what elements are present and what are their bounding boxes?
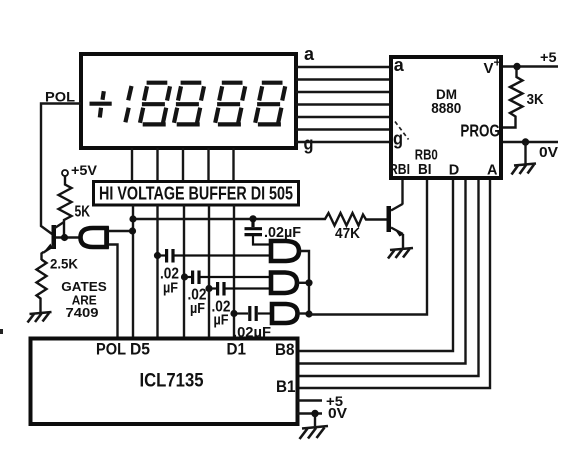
junction G0/D5	[129, 227, 136, 234]
resistor R2 2.5K	[37, 260, 47, 313]
svg-text:POL: POL	[96, 341, 126, 359]
display digit 8 (#3)	[215, 83, 245, 125]
wires display to buffer (5 segment lines)	[132, 148, 234, 182]
wire V+ to +5	[503, 65, 558, 67]
ground (ICL7135 0V)	[300, 426, 329, 439]
segment bundle slash mark	[395, 122, 409, 140]
transistor Q1 (PNP polarity driver)	[42, 222, 82, 260]
junction C2/D4 column	[154, 252, 161, 259]
svg-text:+5: +5	[540, 49, 557, 65]
svg-text:PROG: PROG	[460, 121, 500, 141]
wire main bus y=219 (D5 to 47K)	[133, 218, 322, 220]
capacitor C1 .02uF (vertical)	[245, 219, 272, 245]
wire 0V (DM8880)	[503, 141, 558, 143]
junction C3/D3 column	[181, 273, 188, 280]
ICL7135 U1 box	[31, 339, 298, 425]
wire bus to BI pin	[309, 180, 427, 315]
wires DM8880 D,A pins to ICL7135 B outputs	[297, 180, 490, 388]
junction Q1 collector / gate input	[61, 234, 68, 241]
capacitor C3 .02uF (horizontal)	[185, 271, 272, 285]
ground (under R2)	[28, 312, 52, 323]
display digit 8 (#1)	[140, 83, 170, 125]
wire to ground	[524, 142, 526, 164]
gate G2 (7409)	[271, 273, 297, 294]
junction D5/main bus	[129, 215, 136, 222]
wire 0V stub (ICL7135)	[297, 412, 322, 414]
ground (DM8880 0V)	[512, 164, 537, 175]
svg-text:B1: B1	[276, 378, 296, 396]
svg-text:5K: 5K	[75, 204, 91, 221]
resistor R1 5K	[59, 176, 72, 238]
terminal +5V circle	[62, 170, 68, 176]
svg-text:A: A	[487, 163, 498, 179]
svg-text:a: a	[304, 44, 315, 64]
junction V+/3K	[513, 63, 520, 70]
DM8880 U2 box	[391, 57, 501, 178]
display digit 8 (#4)	[255, 83, 285, 125]
svg-text:D: D	[449, 163, 459, 179]
junction 0V/ground	[522, 138, 529, 145]
display digit 8 (#2)	[174, 83, 204, 125]
svg-text:µF: µF	[214, 312, 229, 329]
junction main bus / C1	[249, 215, 256, 222]
svg-text:2.5K: 2.5K	[50, 256, 78, 272]
wire to ground (ICL7135)	[314, 414, 316, 427]
svg-text:8880: 8880	[431, 101, 461, 117]
gate G3 (7409)	[272, 304, 298, 323]
display digit 1	[125, 86, 131, 122]
gate G0 (7409, faces left)	[81, 228, 107, 247]
svg-text:ICL7135: ICL7135	[140, 371, 204, 392]
svg-text:.02µF: .02µF	[264, 224, 301, 241]
svg-text:D1: D1	[227, 341, 247, 359]
svg-text:BI: BI	[418, 162, 432, 178]
buffer U3 box	[94, 182, 299, 206]
svg-text:V: V	[484, 60, 494, 77]
svg-text:µF: µF	[163, 280, 178, 297]
transistor Q2 (NPN, RBI driver)	[387, 204, 404, 248]
capacitor C5 .02uF (horizontal)	[234, 306, 272, 321]
svg-text:+: +	[494, 56, 501, 70]
svg-text:DM: DM	[436, 87, 457, 102]
svg-text:a: a	[394, 55, 405, 75]
svg-text:D5: D5	[130, 341, 150, 359]
resistor R4 3K	[503, 67, 523, 128]
resistor R3 47K	[322, 213, 387, 226]
svg-text:RBI: RBI	[389, 162, 410, 178]
svg-text:HI VOLTAGE BUFFER DI 505: HI VOLTAGE BUFFER DI 505	[99, 184, 293, 204]
junction 0V/ground (ICL7135)	[311, 410, 318, 417]
svg-text:0V: 0V	[328, 405, 347, 422]
display DS1 box	[81, 54, 296, 148]
svg-text:µF: µF	[190, 300, 205, 317]
svg-text:3K: 3K	[527, 92, 544, 108]
capacitor C4 .02uF (horizontal)	[209, 282, 271, 296]
svg-text:+5V: +5V	[71, 162, 98, 178]
stray mark left edge	[0, 329, 3, 334]
wires buffer to ICL7135 (D5..D1 columns)	[133, 205, 234, 339]
junction C5/D1 column	[230, 310, 237, 317]
gate G1 (7409)	[271, 241, 299, 261]
wire segment a..g bundle (7 lines display to DM8880)	[296, 67, 391, 142]
wire G0 input from POL column	[109, 245, 118, 340]
junction C4/D2 column	[205, 285, 212, 292]
junction G3 output	[305, 310, 312, 317]
svg-text:0V: 0V	[539, 144, 558, 161]
wire +5 stub (ICL7135)	[297, 399, 322, 401]
svg-text:g: g	[393, 129, 403, 149]
wire G0 input from D5 line	[109, 230, 133, 232]
wire gate output bus	[299, 251, 309, 315]
capacitor C2 .02uF (horizontal)	[158, 249, 271, 263]
ground (Q2 emitter)	[388, 248, 413, 259]
svg-text:B8: B8	[275, 341, 295, 359]
svg-text:g: g	[304, 134, 314, 154]
svg-text:47K: 47K	[335, 225, 360, 242]
wire Q2 collector to RBI	[401, 180, 403, 205]
junction G2 output	[305, 279, 312, 286]
svg-text:7409: 7409	[66, 305, 99, 320]
display digit sign +	[90, 91, 112, 117]
svg-text:POL: POL	[45, 89, 75, 105]
wire POL from display to Q1 base	[41, 104, 81, 235]
